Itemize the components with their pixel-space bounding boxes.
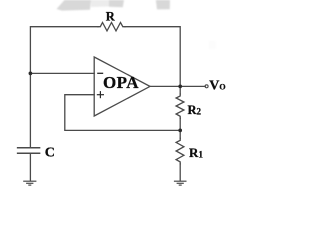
op-amp plus sign bbox=[97, 91, 104, 98]
wire: left rail and top net left segment bbox=[30, 27, 98, 148]
junction: output node bbox=[178, 85, 182, 89]
op-amp U1 triangle bbox=[94, 57, 150, 116]
capacitor C plates bbox=[18, 148, 40, 154]
wire: non-inverting input loop bbox=[65, 95, 180, 131]
svg-text:R: R bbox=[106, 10, 116, 24]
terminal Vo circle bbox=[205, 85, 208, 88]
svg-text:C: C bbox=[45, 145, 55, 160]
resistor R2 bbox=[176, 94, 184, 118]
wire: R1 to ground bbox=[179, 164, 181, 181]
wire: output bbox=[150, 85, 205, 87]
junction: R2/R1 node bbox=[178, 129, 182, 133]
ground: left bbox=[24, 181, 36, 185]
wire: top net right segment and right rail bbox=[125, 27, 180, 87]
wire: R2 top stub bbox=[179, 86, 181, 94]
wire: C to ground bbox=[29, 153, 31, 181]
wire: R2-R1 junction stub bbox=[179, 118, 181, 138]
svg-text:OPA: OPA bbox=[103, 73, 139, 92]
wire: inverting input bbox=[30, 72, 94, 74]
op-amp minus sign bbox=[97, 72, 103, 74]
resistor R bbox=[98, 23, 125, 31]
resistor R1 bbox=[176, 138, 184, 164]
watermark bbox=[57, 0, 217, 49]
junction: inverting input node bbox=[29, 72, 33, 76]
ground: right bbox=[175, 181, 186, 185]
